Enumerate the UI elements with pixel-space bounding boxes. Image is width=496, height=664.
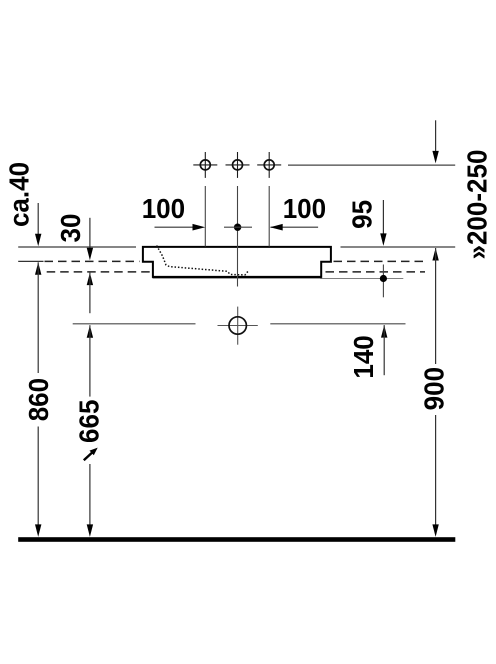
- svg-text:30: 30: [55, 214, 86, 243]
- svg-text:ca.40: ca.40: [4, 162, 35, 227]
- svg-text:665: 665: [74, 400, 105, 443]
- svg-text:100: 100: [142, 193, 185, 224]
- svg-text:»200-250: »200-250: [462, 150, 493, 260]
- svg-text:140: 140: [348, 335, 379, 378]
- svg-text:900: 900: [419, 367, 450, 410]
- svg-text:860: 860: [23, 378, 54, 421]
- svg-text:100: 100: [283, 193, 326, 224]
- svg-text:95: 95: [347, 200, 378, 229]
